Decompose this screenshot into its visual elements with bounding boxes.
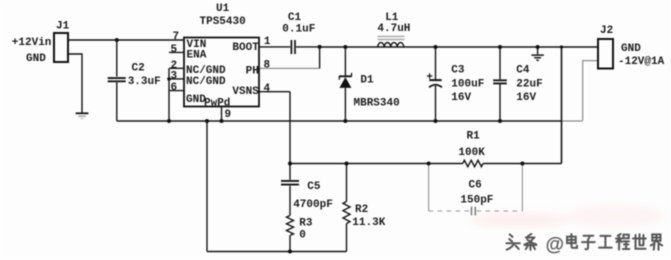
svg-text:100K: 100K bbox=[458, 147, 485, 159]
svg-text:4.7uH: 4.7uH bbox=[377, 23, 410, 35]
svg-text:11.3K: 11.3K bbox=[352, 217, 385, 229]
svg-text:3.3uF: 3.3uF bbox=[128, 76, 161, 88]
svg-text:C3: C3 bbox=[451, 65, 465, 77]
svg-text:7: 7 bbox=[173, 31, 180, 43]
svg-text:NC/GND: NC/GND bbox=[186, 76, 226, 88]
svg-text:16V: 16V bbox=[451, 92, 471, 104]
svg-text:C6: C6 bbox=[469, 180, 482, 192]
svg-text:C5: C5 bbox=[307, 181, 321, 193]
svg-text:150pF: 150pF bbox=[460, 195, 493, 207]
svg-text:PH: PH bbox=[246, 66, 259, 78]
svg-text:C1: C1 bbox=[288, 12, 302, 24]
svg-text:C4: C4 bbox=[516, 65, 530, 77]
svg-text:3: 3 bbox=[171, 70, 178, 82]
svg-text:-12V@1A: -12V@1A bbox=[618, 56, 665, 68]
svg-text:4: 4 bbox=[264, 83, 271, 95]
svg-text:6: 6 bbox=[171, 82, 178, 94]
svg-text:+12Vin: +12Vin bbox=[12, 37, 52, 49]
svg-text:100uF: 100uF bbox=[451, 78, 484, 90]
svg-text:U1: U1 bbox=[216, 3, 230, 15]
svg-text:9: 9 bbox=[225, 109, 232, 121]
svg-text:J1: J1 bbox=[56, 21, 70, 33]
svg-text:5: 5 bbox=[171, 44, 178, 56]
svg-text:PwPd: PwPd bbox=[204, 98, 230, 110]
svg-text:0.1uF: 0.1uF bbox=[282, 24, 315, 36]
svg-text:TPS5430: TPS5430 bbox=[200, 16, 246, 28]
svg-text:GND: GND bbox=[26, 53, 46, 65]
svg-text:4700pF: 4700pF bbox=[293, 199, 333, 211]
svg-text:16V: 16V bbox=[516, 92, 536, 104]
svg-text:VSNS: VSNS bbox=[232, 86, 259, 98]
svg-text:R2: R2 bbox=[355, 204, 368, 216]
svg-text:@: @ bbox=[546, 235, 565, 256]
svg-text:D1: D1 bbox=[360, 75, 374, 87]
svg-text:GND: GND bbox=[621, 43, 641, 55]
svg-text:MBRS340: MBRS340 bbox=[354, 98, 400, 110]
svg-text:22uF: 22uF bbox=[516, 78, 542, 90]
svg-text:8: 8 bbox=[264, 60, 271, 72]
svg-text:0: 0 bbox=[299, 230, 306, 242]
svg-text:J2: J2 bbox=[600, 25, 613, 37]
svg-text:R1: R1 bbox=[467, 131, 481, 143]
svg-text:ENA: ENA bbox=[187, 50, 207, 62]
svg-text:C2: C2 bbox=[132, 63, 145, 75]
svg-text:R3: R3 bbox=[299, 218, 313, 230]
svg-text:1: 1 bbox=[264, 36, 271, 48]
svg-text:BOOT: BOOT bbox=[232, 42, 259, 54]
